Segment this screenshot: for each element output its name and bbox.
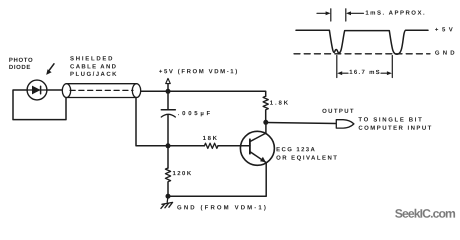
resistor R3 1.8K xyxy=(263,96,268,122)
wire: photodiode anode to cable left xyxy=(47,89,63,91)
wire: photodiode return loop to cable shield xyxy=(13,90,66,120)
ground symbol xyxy=(161,196,173,208)
+5V supply arrow xyxy=(166,78,171,91)
wire: cable centre conductor to +5V rail and collector branch xyxy=(141,91,266,96)
resistor R2 120K xyxy=(165,146,170,196)
waveform GND dashed line xyxy=(294,53,430,55)
wire: emitter return to ground node xyxy=(168,163,266,197)
svg-text:SeekIC.com: SeekIC.com xyxy=(395,207,456,221)
dimension ticks 1mS xyxy=(330,9,332,21)
waveform +5V trace with sync dips xyxy=(296,30,428,54)
svg-text:PHOTO: PHOTO xyxy=(9,58,33,64)
dimension arrow left (16.7mS) xyxy=(337,71,348,75)
svg-text:DIODE: DIODE xyxy=(9,65,31,71)
svg-text:18K: 18K xyxy=(203,136,218,142)
node: +5V junction xyxy=(166,89,171,94)
svg-text:CABLE AND: CABLE AND xyxy=(70,64,117,70)
output flag symbol xyxy=(336,120,354,128)
svg-text:16.7 mS: 16.7 mS xyxy=(349,70,379,76)
svg-text:GND: GND xyxy=(435,51,455,57)
dimension arrow right (1mS) xyxy=(346,11,364,15)
resistor R1 18K xyxy=(168,143,250,148)
svg-text:+5V: +5V xyxy=(435,27,453,33)
transistor Q1 ECG123A xyxy=(240,122,274,165)
svg-text:120K: 120K xyxy=(172,171,191,177)
dimension arrow left (1mS) xyxy=(317,11,331,15)
photodiode D1 xyxy=(27,80,47,100)
node: base junction xyxy=(166,143,171,148)
svg-text:1.8K: 1.8K xyxy=(270,101,289,107)
wire: cable shield drop to base node xyxy=(136,98,168,146)
wire: output from collector node xyxy=(266,123,336,124)
dimension ticks 16.7mS xyxy=(336,56,338,78)
capacitor C1 .005uF xyxy=(161,110,175,117)
svg-text:.005µF: .005µF xyxy=(178,111,211,117)
node: collector junction xyxy=(263,120,268,125)
node: ground junction xyxy=(166,194,171,199)
svg-text:OR EQIVALENT: OR EQIVALENT xyxy=(276,156,337,162)
dimension arrow right (16.7mS) xyxy=(381,71,392,75)
light arrow into photodiode xyxy=(46,64,54,75)
svg-text:PLUG/JACK: PLUG/JACK xyxy=(70,72,117,78)
svg-text:TO SINGLE BIT: TO SINGLE BIT xyxy=(358,117,422,123)
shielded cable J1 body xyxy=(62,84,140,98)
wire: capacitor to base node xyxy=(167,115,169,146)
wire: +5V node down to capacitor xyxy=(167,91,169,109)
svg-text:ECG 123A: ECG 123A xyxy=(276,147,315,153)
